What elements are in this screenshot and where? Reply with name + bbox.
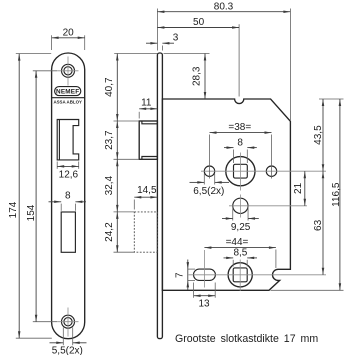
dimension 12,6 (latch cutout width)	[56, 162, 58, 169]
dimension 50 (backset)	[238, 24, 240, 96]
svg-text:=38=: =38=	[228, 122, 251, 133]
svg-text:3: 3	[173, 32, 179, 43]
dimension 21 (spindle to hole)	[304, 171, 306, 206]
svg-text:NEMEF: NEMEF	[56, 89, 79, 96]
latch bolt side view	[139, 121, 157, 159]
dimension 3 (faceplate thickness)	[161, 46, 163, 51]
center line vertical hole 9,25	[239, 195, 241, 218]
svg-text:8: 8	[65, 190, 71, 201]
center line vertical through oval	[203, 250, 205, 288]
svg-text:174: 174	[8, 201, 19, 218]
svg-text:=44=: =44=	[226, 237, 249, 248]
svg-text:40,7: 40,7	[104, 77, 115, 97]
oval cylinder slot	[194, 269, 216, 280]
spindle square hole	[234, 164, 248, 178]
dimension 20 (faceplate width)	[51, 35, 53, 50]
svg-text:43,5: 43,5	[313, 125, 324, 145]
svg-text:80.3: 80.3	[214, 1, 234, 12]
center line horizontal hole 9,25	[229, 205, 307, 207]
svg-text:13: 13	[198, 299, 210, 310]
fixing hole 6,5 left	[204, 166, 214, 176]
svg-text:Grootste slotkastdikte 17 mm: Grootste slotkastdikte 17 mm	[175, 333, 318, 345]
dimension 13 (oval width)	[193, 283, 195, 298]
NEMEF logo oval	[55, 87, 81, 96]
top screw hole center lines	[58, 70, 79, 72]
svg-text:8: 8	[237, 137, 243, 148]
dimension 11 (latch protrusion)	[138, 112, 140, 119]
bottom screw hole inner circle	[64, 318, 72, 326]
svg-text:9,25: 9,25	[231, 222, 251, 233]
dimension 43,5 (top edge to spindle)	[319, 98, 344, 100]
latch cutout front view	[57, 120, 78, 160]
svg-text:11: 11	[141, 97, 152, 108]
lock case outline	[162, 99, 290, 290]
center line horizontal through followers row	[189, 274, 327, 276]
svg-text:8,5: 8,5	[233, 248, 247, 259]
center line vertical lower follower	[239, 260, 241, 292]
svg-text:63: 63	[313, 219, 324, 231]
faceplate edge side view	[157, 53, 162, 339]
latch bolt inner step top	[142, 121, 158, 124]
svg-text:ASSA ABLOY: ASSA ABLOY	[53, 99, 82, 104]
hole 9,25	[233, 198, 248, 213]
bottom screw hole outer circle	[62, 315, 75, 328]
svg-text:116,5: 116,5	[331, 182, 342, 207]
dimension 44 (oval to slot)	[275, 250, 277, 269]
svg-text:154: 154	[26, 204, 37, 221]
dimension 174 (faceplate height)	[16, 53, 51, 55]
top screw hole inner circle	[64, 67, 72, 75]
svg-text:24,2: 24,2	[104, 222, 115, 242]
svg-text:23,7: 23,7	[104, 130, 115, 150]
svg-text:7: 7	[174, 272, 185, 278]
dimension 80.3 (overall depth)	[156, 9, 158, 51]
svg-text:6,5(2x): 6,5(2x)	[193, 186, 224, 197]
spindle follower circle	[226, 157, 255, 186]
center line horizontal through spindle row	[201, 170, 326, 172]
deadbolt thrown (dashed) side view	[134, 212, 157, 252]
lower follower square 8,5	[233, 268, 247, 282]
latch bolt inner step bottom	[142, 157, 158, 160]
left chain dimension line (40,7 / 23,7 / 32,4 / 24,2)	[114, 53, 157, 55]
dimension 6,5(2x) (fixing holes dia)	[203, 174, 205, 185]
svg-text:14,5: 14,5	[137, 185, 157, 196]
svg-text:32,4: 32,4	[104, 175, 115, 195]
dimension 9,25 (hole dia)	[232, 206, 234, 221]
lower follower circle	[228, 263, 252, 287]
dimension 5,5(2x) (screw hole dia)	[62, 328, 64, 346]
center line vertical spindle	[239, 153, 241, 191]
dimension 7 (oval height)	[188, 268, 195, 270]
dimension 38 (fixing hole distance)	[209, 135, 211, 179]
svg-text:50: 50	[193, 17, 205, 28]
faceplate outline front view	[52, 53, 85, 339]
top screw hole outer circle	[62, 64, 75, 77]
rule under logo	[52, 97, 85, 99]
dimension 14,5 (deadbolt throw)	[133, 200, 135, 210]
dimension 28,3 (top of plate to case)	[164, 53, 210, 55]
latch cutout inner edge line	[58, 120, 60, 160]
deadbolt cutout front view	[61, 212, 75, 252]
svg-text:12,6: 12,6	[59, 170, 79, 181]
svg-text:20: 20	[63, 28, 75, 39]
fixing hole 6,5 right	[266, 166, 276, 176]
dimension 154 (screw hole distance)	[33, 70, 58, 72]
svg-text:28,3: 28,3	[192, 66, 203, 86]
svg-text:21: 21	[293, 182, 304, 194]
dimension 63 (spindle to lower follower)	[322, 171, 324, 275]
bottom screw hole center lines	[58, 321, 79, 323]
svg-text:5,5(2x): 5,5(2x)	[52, 346, 83, 355]
dimension 116,5 (case height)	[271, 289, 344, 291]
